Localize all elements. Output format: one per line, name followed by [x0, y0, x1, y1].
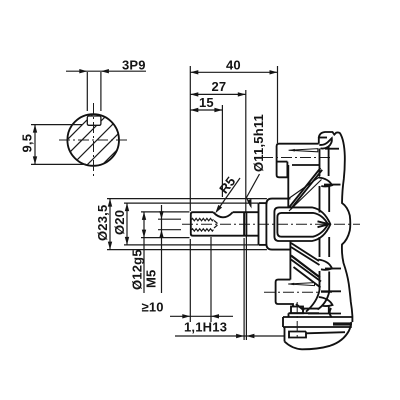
center drill mark: [318, 221, 330, 227]
horizontal centerline of detail circle: [59, 139, 127, 141]
engine foot base with slot: [285, 327, 307, 342]
label diameter 11,5h11 leader with arrow: [247, 174, 260, 209]
dimension M5 extension lines: [158, 219, 181, 230]
diameter 20 collar edges: [259, 203, 267, 245]
detail section view: shaft circle: [67, 114, 119, 166]
engine foot plate: [283, 317, 352, 327]
shroud edge line below hook 1: [325, 148, 339, 150]
bottom mounting boss outline: [276, 280, 293, 307]
vertical centerline of detail circle: [93, 103, 95, 178]
diameter 20 collar step face: [258, 203, 260, 245]
svg-text:Ø20: Ø20: [112, 210, 127, 235]
dimension 27 line and arrows: [190, 92, 246, 96]
dimension 40 extension line left: [189, 66, 191, 211]
dimension diameter 23,5 line and arrows: [108, 199, 112, 250]
fan cone face vertical upper: [287, 165, 289, 207]
dimension 15 extension line right: [221, 105, 223, 197]
dimension diameter 12g5 line and arrows: [142, 212, 146, 293]
crankshaft outer bullet through hub: [274, 207, 330, 241]
fan blade tip hook 3: [318, 260, 332, 270]
top boss centerline: [262, 157, 332, 159]
fan front face vertical segments: [318, 137, 321, 290]
dimension 3P9 line and arrows: [66, 69, 146, 73]
svg-text:M5: M5: [144, 270, 159, 288]
engine foot step: [289, 309, 320, 317]
crankcase top inner ledge: [320, 137, 328, 139]
keyway slot: [87, 116, 101, 125]
dimension >=10 line and arrows outside: [170, 314, 233, 318]
dimension 9,5 line and arrows: [33, 125, 37, 165]
engine foot bottom wavy edge: [285, 322, 352, 349]
fan blade tip hook 4: [319, 297, 333, 306]
shaft main centerline: [182, 223, 360, 225]
diameter 23,5 hub ring face: [266, 199, 290, 250]
bottom boss centerline: [264, 291, 332, 293]
M5 thread zigzag top: [192, 218, 214, 220]
engine foot bolt head: [291, 307, 303, 314]
fan cone face vertical lower: [289, 241, 291, 280]
shaft diameter 12g5 outline with keyway runout notch: [191, 212, 258, 236]
top boss ledge line: [277, 161, 288, 163]
svg-text:1,1H13: 1,1H13: [184, 320, 227, 335]
dimension diameter 12g5 extension lines: [141, 212, 190, 238]
dimension M5 line and arrows outside: [159, 205, 163, 293]
dimension 3P9 extension lines: [87, 72, 101, 111]
keyway runout notch R5 arc: [213, 212, 233, 217]
fan blade tip hook 2: [319, 178, 333, 187]
svg-text:3P9: 3P9: [122, 58, 146, 73]
foot base inner edge: [306, 332, 345, 333]
crankshaft inner bore edges: [277, 213, 328, 237]
crankcase outline top and right wavy edge: [319, 132, 353, 322]
top mounting boss outline: [277, 144, 319, 178]
hatching of section: [40, 67, 175, 222]
svg-text:≥10: ≥10: [142, 300, 164, 315]
svg-text:9,5: 9,5: [20, 134, 35, 153]
shroud edge line below hook 4: [321, 290, 341, 292]
svg-text:Ø11,5h11: Ø11,5h11: [251, 114, 266, 172]
dimension 1,1H13 groove extension lines: [244, 212, 246, 340]
shroud edge line below hook 2: [324, 184, 341, 186]
shroud edge line below hook 3: [325, 268, 341, 270]
dimension diameter 20 extension lines: [124, 203, 258, 245]
dimension diameter 23,5 extension lines: [107, 199, 267, 250]
dimension 40 extension line right: [277, 66, 279, 143]
dimension 9,5 extension lines: [31, 125, 86, 165]
dimension 1,1H13 line and arrows outside: [175, 334, 284, 338]
dimension 40 line and arrows: [190, 70, 277, 74]
dimension >=10 extension lines: [190, 237, 211, 322]
fan cone upper blade diagonals: [289, 168, 323, 211]
engine foot bolt centerline: [296, 302, 298, 340]
fan cone lower blade diagonals: [291, 243, 321, 288]
svg-text:Ø12g5: Ø12g5: [130, 249, 145, 290]
engine foot plate thick band: [333, 322, 352, 325]
svg-text:40: 40: [226, 58, 241, 73]
label R5 leader with arrow: [215, 178, 240, 213]
fan blade tip hook 1: [319, 138, 332, 148]
M5 thread zigzag bottom: [192, 229, 214, 231]
bottom boss rib blade edge: [288, 283, 314, 286]
circlip groove 1,1H13 in shaft: [244, 212, 246, 236]
svg-text:15: 15: [199, 95, 214, 110]
svg-text:27: 27: [212, 79, 227, 94]
svg-text:Ø23,5: Ø23,5: [95, 205, 110, 241]
fan bottom rim: [296, 290, 341, 317]
dimension 27 extension line right: [245, 90, 247, 212]
thread end dashes: [214, 221, 218, 229]
svg-text:R5: R5: [216, 174, 238, 197]
top boss rib blade edge: [289, 149, 318, 152]
dimension 15 line and arrows: [190, 108, 222, 112]
fan shroud rear edge vertical segments: [328, 146, 331, 313]
dimension diameter 20 line and arrows: [125, 203, 129, 245]
